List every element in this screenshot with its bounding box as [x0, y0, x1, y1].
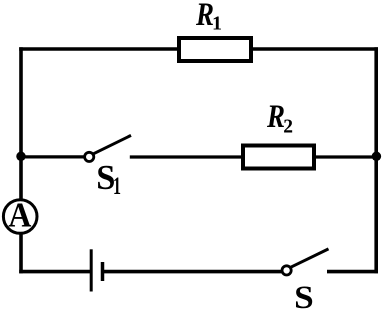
svg-text:R: R: [266, 99, 285, 135]
wire right: [374, 47, 378, 273]
resistor R1: [179, 38, 251, 61]
svg-text:A: A: [8, 195, 32, 234]
wire middle left: [21, 155, 84, 158]
wire bottom middle: [103, 270, 282, 274]
node left junction: [16, 152, 26, 162]
ammeter A: [3, 200, 37, 234]
node right junction: [372, 152, 382, 162]
wire left lower: [19, 234, 23, 274]
svg-text:2: 2: [283, 117, 293, 138]
resistor R2: [243, 146, 314, 169]
wire bottom left: [19, 270, 90, 274]
wire bottom right: [327, 270, 378, 274]
battery long plate: [90, 249, 93, 291]
svg-text:1: 1: [212, 12, 222, 34]
battery short plate: [101, 262, 105, 281]
svg-text:1: 1: [113, 171, 121, 200]
wire top: [19, 47, 378, 50]
wire middle right: [130, 155, 378, 158]
wire left upper: [19, 47, 23, 199]
switch S: [282, 266, 291, 275]
svg-text:S: S: [294, 280, 314, 309]
switch S1: [85, 152, 94, 161]
